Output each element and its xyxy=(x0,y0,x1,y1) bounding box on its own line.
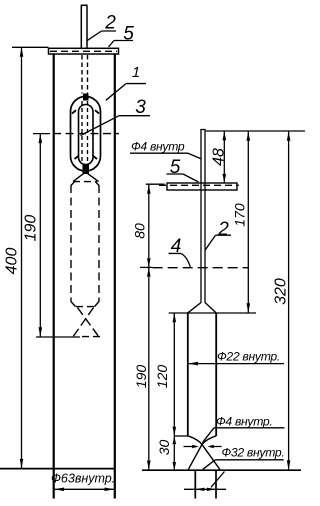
svg-text:5: 5 xyxy=(170,157,181,178)
svg-text:80: 80 xyxy=(132,223,148,239)
svg-text:48: 48 xyxy=(211,148,228,166)
svg-text:1: 1 xyxy=(132,64,140,81)
svg-text:400: 400 xyxy=(4,248,21,275)
svg-text:Ф63внутр.: Ф63внутр. xyxy=(51,472,115,486)
svg-text:Ф22 внутр.: Ф22 внутр. xyxy=(217,350,280,364)
svg-text:120: 120 xyxy=(154,365,170,389)
svg-text:3: 3 xyxy=(135,97,146,118)
svg-text:4: 4 xyxy=(171,236,182,257)
svg-text:5: 5 xyxy=(123,23,134,44)
svg-text:190: 190 xyxy=(133,365,149,389)
svg-text:190: 190 xyxy=(23,215,40,242)
svg-text:Ф4 внутр: Ф4 внутр xyxy=(131,140,185,154)
svg-text:Ф4 внутр.: Ф4 внутр. xyxy=(216,415,273,429)
svg-text:2: 2 xyxy=(217,219,229,240)
svg-text:30: 30 xyxy=(156,440,172,456)
svg-text:2: 2 xyxy=(104,12,116,33)
svg-text:170: 170 xyxy=(232,203,248,227)
svg-text:Ф32 внутр.: Ф32 внутр. xyxy=(222,446,285,460)
svg-text:320: 320 xyxy=(273,278,290,305)
